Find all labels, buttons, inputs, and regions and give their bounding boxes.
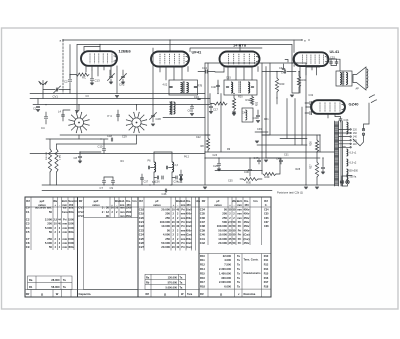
svg-text:(Car): (Car) (243, 233, 249, 237)
svg-text:58.000: 58.000 (51, 285, 60, 289)
svg-text:10x0: 10x0 (186, 241, 192, 245)
resistor R24 (297, 76, 300, 87)
wire V4 anode to OT (328, 59, 340, 71)
wire V1 pin drops (86, 66, 117, 94)
svg-text:Resistiva: Resistiva (244, 292, 256, 296)
svg-text:Pri: Pri (181, 241, 185, 245)
svg-text:R16: R16 (200, 276, 205, 280)
trimmer CV2a (109, 70, 111, 76)
table bottom row group1-2 (25, 290, 138, 298)
resistor R16 (206, 138, 209, 150)
oscillator coil L1 (74, 118, 83, 127)
MF1 tuning caps (170, 86, 173, 87)
wire x221 drop (220, 94, 222, 153)
svg-text:-: - (177, 204, 178, 207)
choke P6a side cap (148, 166, 149, 169)
svg-text:450v: 450v (244, 216, 250, 220)
svg-text:C29: C29 (213, 164, 218, 168)
wire bottom bus 2 (42, 190, 272, 192)
wire x302 drop (301, 107, 303, 145)
svg-text:Pri: Pri (63, 217, 67, 221)
phono terminal 1 (305, 101, 311, 104)
svg-text:C35: C35 (228, 180, 233, 183)
wire bus y67 (306, 65, 320, 68)
wire AVC bus (30, 93, 205, 95)
svg-text:4.02: 4.02 (163, 84, 168, 87)
wire y170 link (215, 170, 262, 172)
svg-text:Pri: Pri (238, 237, 242, 241)
svg-text:Boll.: Boll. (62, 199, 68, 203)
wire x218 stub (217, 80, 219, 94)
svg-text:Pri: Pri (181, 224, 185, 228)
svg-text:450v: 450v (68, 245, 74, 249)
svg-text:C.: C. (265, 203, 268, 207)
ground symbols row (75, 111, 79, 113)
svg-text:500.000: 500.000 (46, 151, 48, 160)
wire mid bus y158 (205, 157, 320, 159)
svg-text:160: 160 (353, 132, 358, 135)
svg-text:1500: 1500 (126, 206, 132, 210)
svg-text:C8: C8 (74, 156, 78, 160)
resistor RC (76, 73, 89, 76)
svg-text:valore: valore (92, 203, 100, 207)
svg-text:P6.2: P6.2 (184, 156, 190, 159)
resistor R18 horizontal (214, 102, 227, 105)
svg-text:Pri: Pri (238, 220, 242, 224)
wire bus y153 (30, 153, 205, 155)
wire x210 drop (209, 94, 211, 104)
filament choke P6b (172, 162, 174, 172)
svg-text:C19: C19 (122, 136, 127, 139)
T1 core (341, 121, 343, 186)
wire grid lead x70 (69, 45, 71, 79)
svg-text:R26: R26 (310, 141, 313, 146)
svg-text:1.400.000: 1.400.000 (219, 271, 231, 275)
svg-text:mm: mm (62, 246, 67, 249)
svg-text:C4: C4 (41, 126, 45, 130)
ground below CV2a (109, 82, 113, 84)
svg-text:Boll.: Boll. (237, 199, 243, 203)
svg-text:R10: R10 (264, 255, 269, 258)
svg-text:450v: 450v (186, 228, 192, 232)
wire antenna to CV1 (43, 89, 55, 91)
svg-text:C37: C37 (144, 181, 149, 184)
fuse terminals (360, 136, 364, 146)
resistor R1 vertical left (48, 149, 51, 172)
svg-text:Rif: Rif (146, 292, 150, 296)
MF3 core (239, 82, 241, 94)
T1 mains taps (339, 128, 350, 130)
svg-text:1500: 1500 (68, 222, 74, 226)
phono terminal 2 (305, 111, 311, 114)
T2 primary winding (340, 73, 342, 85)
svg-text:Rif: Rif (26, 199, 30, 203)
output transformer T2 box (336, 71, 352, 86)
wire x320 drop (262, 135, 320, 152)
MF1 secondary winding (187, 83, 189, 93)
table header underline (25, 206, 271, 208)
capacitor C17 with resistor (209, 112, 213, 114)
svg-text:C36: C36 (155, 181, 160, 184)
svg-text:450v: 450v (186, 212, 192, 216)
wire L1 top lead (78, 105, 80, 111)
wire V2 pin drops (160, 67, 188, 81)
pilot lamp LP1 (340, 180, 344, 184)
svg-text:1500: 1500 (68, 237, 74, 241)
svg-text:R12: R12 (246, 98, 251, 102)
svg-text:R30: R30 (246, 181, 251, 185)
svg-text:Tara: Tara (187, 293, 193, 296)
wire bus y144 (57, 139, 137, 144)
svg-text:Rif: Rif (79, 199, 83, 203)
T1 6.3v windings (347, 149, 348, 156)
pilot lamp LP2 (346, 180, 350, 184)
resistor R23 (275, 78, 278, 92)
svg-text:R18: R18 (264, 286, 269, 289)
svg-text:10x0: 10x0 (186, 220, 192, 224)
svg-text:mm: mm (62, 227, 67, 230)
svg-text:450v: 450v (244, 220, 250, 224)
svg-text:6,3 v1: 6,3 v1 (350, 152, 357, 155)
junction dots (99, 44, 100, 45)
svg-text:20.000: 20.000 (218, 241, 227, 245)
svg-text:mm: mm (237, 208, 242, 211)
capacitor C45 (339, 119, 342, 120)
svg-text:C42: C42 (200, 241, 206, 245)
table group3 bottom box (145, 274, 186, 289)
svg-text:450v: 450v (68, 210, 74, 214)
svg-text:(Car): (Car) (186, 233, 192, 237)
MF3 tuning caps (226, 86, 229, 87)
svg-text:R16: R16 (264, 277, 269, 280)
svg-text:CV1: CV1 (53, 95, 59, 99)
wire top bus a-line (63, 39, 302, 41)
svg-text:500 fa: 500 fa (350, 176, 357, 179)
capacitor C34 pair (176, 176, 177, 179)
wire L2 bottom lead (136, 135, 138, 139)
svg-text:Pri: Pri (238, 233, 242, 237)
svg-text:R17: R17 (264, 281, 269, 284)
svg-text:valore: valore (214, 203, 222, 207)
svg-text:-: - (234, 204, 235, 207)
svg-text:R12: R12 (200, 263, 205, 267)
node B+ wire down (305, 107, 307, 185)
svg-text:C17: C17 (213, 108, 218, 112)
svg-text:Pri: Pri (238, 228, 242, 232)
svg-text:220: 220 (353, 129, 358, 132)
svg-text:R28: R28 (296, 168, 301, 171)
oscillator can C42 (242, 108, 253, 122)
svg-text:-: - (59, 204, 60, 207)
wire V5 leads (306, 63, 335, 118)
svg-text:var: var (63, 206, 67, 210)
wire x262 drop (261, 63, 263, 152)
svg-text:μF: μF (155, 199, 159, 203)
capacitor C4b at V4 grid (282, 68, 285, 69)
svg-text:C18: C18 (107, 134, 112, 138)
svg-text:C4b: C4b (344, 118, 349, 122)
svg-text:28.000: 28.000 (51, 278, 60, 282)
svg-text:6.000: 6.000 (224, 285, 231, 289)
wire CV1 to grid (59, 89, 70, 91)
resistor R27 (315, 162, 318, 177)
svg-text:mm: mm (62, 223, 67, 226)
wire L1 bottom lead (78, 135, 80, 139)
svg-text:R12: R12 (264, 264, 269, 267)
wire top-left feedback loop (84, 47, 100, 52)
svg-text:20.000: 20.000 (161, 245, 170, 249)
tube V1 12BE6 (81, 51, 117, 66)
wire bus y139 (46, 138, 108, 140)
wire top bus 2 (77, 44, 292, 46)
filament choke P6a (154, 162, 156, 172)
capacitor C46 (165, 189, 166, 192)
svg-text:C1: C1 (26, 210, 30, 214)
svg-text:B: B (294, 64, 296, 68)
svg-text:mm: mm (237, 204, 242, 207)
capacitor C33 pair (330, 62, 333, 63)
svg-text:570.000: 570.000 (168, 280, 178, 284)
potentiometer P4 (117, 115, 120, 116)
wire grid lead x77 (76, 45, 78, 111)
svg-text:C43: C43 (253, 116, 258, 120)
svg-text:R14: R14 (200, 267, 205, 271)
svg-text:R22: R22 (257, 101, 259, 106)
svg-text:Um: Um (73, 199, 78, 203)
svg-text:R11: R11 (200, 258, 205, 262)
T2 core (343, 72, 344, 85)
svg-text:μμF: μμF (94, 199, 99, 203)
svg-text:Dis.: Dis. (186, 199, 191, 203)
table group2 empty box (84, 218, 139, 290)
table group dividers (77, 197, 79, 297)
svg-text:mm: mm (120, 211, 125, 214)
svg-text:C9: C9 (110, 186, 114, 190)
wire x292 detector drop (292, 45, 299, 94)
svg-text:Ra: Ra (29, 278, 33, 282)
svg-text:μF: μF (216, 199, 220, 203)
svg-text:Um: Um (253, 199, 258, 203)
resistor R2 vertical left (55, 149, 58, 172)
svg-text:C10: C10 (98, 145, 103, 149)
capacitor L4 (62, 115, 65, 116)
svg-text:Wa: Wa (53, 199, 57, 203)
wire choke tops (154, 151, 172, 153)
svg-text:10x0: 10x0 (186, 207, 192, 211)
svg-text:valore: valore (153, 203, 161, 207)
svg-text:C36: C36 (264, 217, 269, 220)
svg-text:450v: 450v (244, 207, 250, 211)
node a (left) (62, 39, 63, 40)
svg-text:Um: Um (196, 199, 201, 203)
svg-text:Pri: Pri (181, 245, 185, 249)
svg-text:C38: C38 (264, 225, 269, 228)
svg-text:Rif: Rif (264, 199, 268, 203)
capacitor C30 (248, 169, 251, 170)
wire L2 top lead (136, 105, 138, 111)
svg-text:UF41: UF41 (192, 50, 203, 55)
MF1 core (183, 82, 184, 94)
svg-text:C47: C47 (254, 156, 259, 160)
svg-text:R27: R27 (310, 164, 313, 169)
svg-text:1500: 1500 (68, 241, 74, 245)
svg-text:6,3 v2: 6,3 v2 (350, 162, 357, 165)
capacitor C2 (68, 80, 71, 81)
ground below C1 (36, 110, 40, 112)
resistor R12 (250, 97, 253, 106)
svg-text:mm: mm (237, 217, 242, 220)
svg-text:mm: mm (62, 231, 67, 234)
capacitor C18 (111, 138, 112, 141)
svg-text:Boll.: Boll. (119, 199, 125, 203)
wire screen bus y63 (205, 62, 306, 64)
svg-text:μμF: μμF (40, 199, 45, 203)
wire V4 top drop (293, 40, 295, 53)
capacitor C37 (140, 178, 143, 179)
ground below C13 (90, 83, 94, 85)
speaker (353, 67, 366, 90)
svg-text:500+500: 500+500 (349, 170, 359, 173)
wire x208 drop (207, 63, 209, 135)
svg-text:C42: C42 (242, 112, 247, 115)
svg-text:2,5: 2,5 (54, 218, 58, 221)
wire bus y48 (190, 48, 262, 52)
tube V3 14RT8 (220, 52, 260, 67)
trimmer CV2b (122, 70, 124, 76)
svg-text:Rif: Rif (200, 292, 204, 296)
svg-text:Potenziometro: Potenziometro (244, 272, 261, 275)
svg-text:2.300.000: 2.300.000 (219, 267, 231, 271)
svg-text:1500: 1500 (68, 217, 74, 221)
svg-text:mm: mm (62, 238, 67, 241)
wire bottom bus (42, 184, 335, 186)
svg-text:C16: C16 (194, 95, 199, 99)
svg-text:C40: C40 (211, 85, 216, 89)
svg-text:50: 50 (49, 210, 53, 214)
svg-text:C4b: C4b (281, 72, 286, 75)
svg-text:Rif: Rif (202, 199, 206, 203)
capacitor C8 (78, 156, 81, 157)
svg-text:450v: 450v (244, 241, 250, 245)
mains plug arrows (369, 95, 373, 97)
wire bus y104 (33, 104, 210, 106)
svg-text:R7B: R7B (198, 85, 203, 88)
oscillator coil L5 with core (170, 102, 172, 114)
svg-text:Rif: Rif (26, 292, 30, 296)
capacitor C10 (102, 149, 105, 150)
svg-text:mm: mm (237, 213, 242, 216)
power transformer T1 primary (335, 121, 339, 186)
svg-text:C28: C28 (156, 117, 162, 121)
svg-text:1500: 1500 (126, 210, 132, 214)
svg-text:C1: C1 (33, 107, 37, 111)
svg-text:Capacim.: Capacim. (79, 292, 92, 296)
wire screen bus x205 (204, 63, 206, 185)
svg-text:Posizione tasti C2b (1): Posizione tasti C2b (1) (277, 191, 303, 195)
capacitor C48 (279, 160, 282, 161)
table group3 bottom row (138, 290, 199, 298)
capacitor C14 (206, 70, 207, 73)
MF3 primary winding (231, 82, 233, 93)
capacitor C36 pair (157, 176, 158, 179)
resistor R30 horizontal (243, 178, 258, 181)
wire V1 top drop (99, 45, 101, 52)
svg-text:C46: C46 (162, 192, 167, 196)
ground left of transformer (255, 141, 259, 143)
voltage selector arrow (353, 139, 360, 146)
svg-text:R21: R21 (264, 118, 269, 121)
wire y138 link (280, 138, 307, 140)
wire tuning gang dashed link (62, 40, 64, 94)
capacitor C29 (217, 164, 220, 165)
svg-text:RC: RC (82, 76, 86, 80)
svg-text:Rb: Rb (146, 281, 150, 284)
wire mid bus y152 (205, 151, 335, 153)
oscillator coil L2 (132, 118, 141, 127)
svg-text:130.000: 130.000 (168, 275, 178, 279)
resistor R29 horizontal (263, 173, 276, 176)
wire V2 top drop (169, 40, 171, 52)
wire y132 stub (255, 131, 268, 133)
svg-text:110: 110 (353, 143, 357, 146)
svg-text:2.000.000: 2.000.000 (219, 280, 231, 284)
table sub-column rules (30, 197, 32, 250)
svg-text:UL41: UL41 (330, 49, 341, 54)
svg-text:C15: C15 (226, 76, 231, 80)
capacitor C41 (284, 70, 285, 73)
tube V4 UL41 (294, 52, 329, 66)
capacitor C49 (321, 167, 324, 168)
svg-text:450v: 450v (186, 237, 192, 241)
capacitor C47 (257, 160, 260, 161)
svg-text:AP: AP (356, 88, 360, 91)
svg-text:C39: C39 (257, 128, 262, 131)
svg-text:50: 50 (49, 245, 53, 249)
T1 500+500 winding (347, 169, 348, 182)
svg-text:C7: C7 (100, 186, 104, 190)
wire lamp leads (342, 176, 348, 186)
svg-text:C14: C14 (202, 66, 207, 70)
svg-text:W: W (56, 292, 59, 296)
wire y117 link (163, 117, 205, 119)
trimmer C28 (151, 115, 154, 116)
svg-text:5.000.000: 5.000.000 (165, 285, 177, 289)
svg-text:R20: R20 (238, 96, 243, 99)
capacitor C43 (256, 115, 259, 116)
svg-text:R14: R14 (264, 268, 269, 271)
capacitor C4 (45, 112, 47, 116)
T1 HT secondary winding (347, 122, 349, 134)
svg-text:C31: C31 (284, 154, 289, 157)
svg-text:R11: R11 (264, 259, 269, 262)
wire V3 top drop (239, 45, 241, 52)
resistor R25 (315, 140, 318, 152)
capacitor C9 (111, 181, 114, 182)
svg-text:mm: mm (120, 207, 125, 210)
svg-text:R10: R10 (200, 254, 205, 258)
svg-text:R17: R17 (200, 280, 205, 284)
capacitor C13 (91, 70, 93, 78)
IF transformer MF3 box (224, 80, 257, 95)
svg-text:(Car): (Car) (243, 237, 249, 241)
wire x270 drop (262, 63, 270, 135)
svg-text:R18: R18 (200, 285, 205, 289)
svg-text:mm: mm (181, 204, 186, 207)
capacitor C7 (102, 181, 105, 182)
trimmer CV1 (56, 88, 57, 91)
svg-text:450v: 450v (244, 224, 250, 228)
svg-text:450: 450 (186, 203, 191, 207)
